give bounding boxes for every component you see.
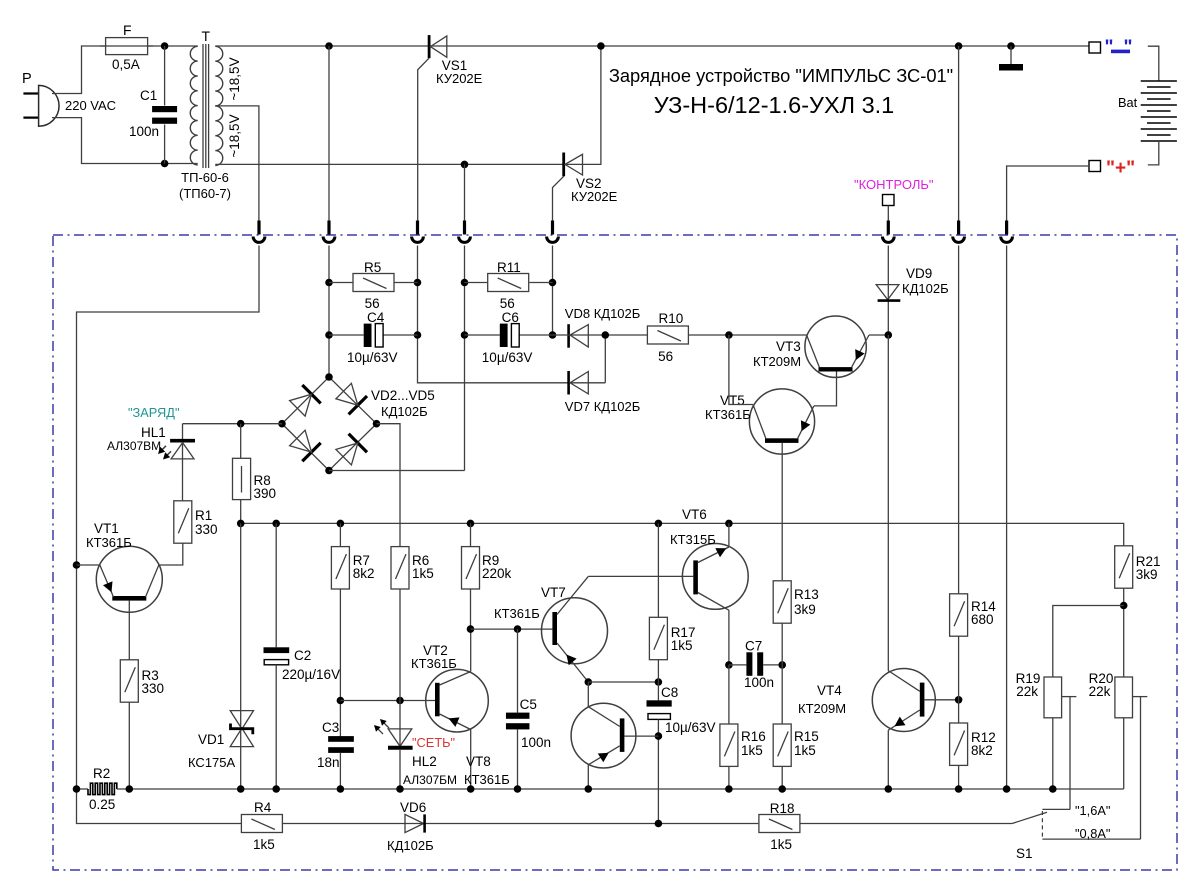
node bottom rail x1052.8 xyxy=(1049,785,1057,793)
wire R19 bottom xyxy=(1052,718,1054,789)
thyristor VS2 KU202E xyxy=(562,153,565,177)
wire VT6 emitter riser xyxy=(728,523,730,547)
capacitor C6 10u/63V xyxy=(500,324,508,347)
wire R20 bottom xyxy=(1123,718,1125,789)
battery Bat xyxy=(1148,46,1159,81)
svg-text:КТ361Б: КТ361Б xyxy=(411,656,457,671)
wire R16 column xyxy=(728,665,730,724)
node C1 bottom xyxy=(161,160,169,168)
wire R13 bottom xyxy=(781,623,783,724)
svg-text:VT6: VT6 xyxy=(682,507,707,522)
node VT2 collector xyxy=(467,625,475,633)
node VD7 riser top xyxy=(602,331,610,339)
node bottom rail x1006.6 xyxy=(1003,785,1011,793)
wire VD8 line xyxy=(553,334,648,336)
capacitor C7 100n xyxy=(746,652,752,676)
wire C2 bottom lead xyxy=(275,665,277,789)
node R5 right xyxy=(414,279,422,287)
svg-text:(ТП60-7): (ТП60-7) xyxy=(179,186,231,201)
node C7 left xyxy=(725,661,733,669)
svg-text:R2: R2 xyxy=(93,766,110,781)
node rail R9 xyxy=(467,520,475,528)
wire node to connector 2 xyxy=(328,46,330,221)
wire R4 to VD6 xyxy=(282,823,758,825)
wire VT5 emitter to VT3 base xyxy=(814,372,837,406)
svg-text:8k2: 8k2 xyxy=(971,743,993,758)
node bridge bottom xyxy=(325,467,333,475)
wire R18 to S1 xyxy=(800,823,1012,825)
connector contact X3 xyxy=(416,221,419,235)
node bottom rail x276.2 xyxy=(272,785,280,793)
bridge diode lower-right xyxy=(349,434,367,452)
svg-text:1k5: 1k5 xyxy=(412,566,434,581)
connector contact X2 xyxy=(327,221,330,235)
node ground xyxy=(1007,42,1015,50)
node bottom rail x888.3 xyxy=(885,785,893,793)
trimmer R20 22k xyxy=(1115,677,1133,718)
svg-text:3k9: 3k9 xyxy=(794,602,816,617)
node C1 top xyxy=(161,42,169,50)
node R11 right xyxy=(549,279,557,287)
wire VT7 collector to VT6 base xyxy=(588,575,693,577)
wire C3 bottom xyxy=(339,752,341,789)
capacitor C3 18n xyxy=(328,736,354,742)
svg-text:330: 330 xyxy=(195,522,218,537)
svg-text:R16: R16 xyxy=(741,729,766,744)
resistor R12 8k2 xyxy=(950,723,968,765)
bridge diode upper-right xyxy=(349,396,367,414)
svg-text:C4: C4 xyxy=(367,310,385,325)
wire R17 bottom xyxy=(657,660,659,682)
svg-text:КТ209М: КТ209М xyxy=(753,354,801,369)
wire VT2 base line xyxy=(340,700,435,702)
wire R8 top lead xyxy=(240,424,242,459)
svg-text:~18,5V: ~18,5V xyxy=(227,57,242,100)
capacitor C1 100n xyxy=(164,46,166,106)
wire R14 column upper xyxy=(958,46,960,221)
device boundary dash-dot border xyxy=(53,235,1177,870)
svg-text:УЗ-Н-6/12-1.6-УХЛ 3.1: УЗ-Н-6/12-1.6-УХЛ 3.1 xyxy=(654,92,895,118)
LED HL1 AL307VM xyxy=(182,424,184,502)
node C6 left xyxy=(461,331,469,339)
wire R7 top xyxy=(339,523,341,546)
node C5 top xyxy=(514,625,522,633)
wire R21 to R19 xyxy=(1053,606,1124,678)
wire R3 to bottom rail xyxy=(128,702,130,789)
wire C4 leads xyxy=(329,334,364,336)
svg-text:Зарядное устройство "ИМПУЛЬС З: Зарядное устройство "ИМПУЛЬС ЗС-01" xyxy=(609,65,953,86)
wire R8 bottom to rail xyxy=(240,500,242,524)
wire R1 to VT1 collector xyxy=(159,543,183,565)
wire VT3 emitter to VD9 column xyxy=(869,334,888,336)
wire base line y629 xyxy=(471,628,553,630)
wire plug top to fuse xyxy=(52,46,106,94)
wire R5 leads xyxy=(329,282,353,284)
node R21 bottom xyxy=(1120,602,1128,610)
wire bottom rail left xyxy=(77,788,89,790)
wire C8 bottom lead xyxy=(657,719,659,823)
wire R9 bottom xyxy=(470,589,472,629)
resistor R9 220k xyxy=(462,547,480,589)
wire C7 left lead xyxy=(729,664,747,666)
terminal KONTROL square xyxy=(883,195,895,206)
wire secondary bottom rail xyxy=(215,163,582,165)
wire C7 right lead xyxy=(763,664,782,666)
diode VD8 KD102B xyxy=(567,324,570,348)
connector contact X5 xyxy=(551,221,554,235)
svg-text:100n: 100n xyxy=(744,675,774,690)
svg-text:C1: C1 xyxy=(140,88,157,103)
wire R12 bottom xyxy=(958,765,960,789)
node VS2 riser xyxy=(597,42,605,50)
resistor R8 390 xyxy=(233,458,251,499)
transistor VT6 KT315B xyxy=(682,544,748,610)
connector contact X8 xyxy=(1005,221,1008,235)
svg-text:100n: 100n xyxy=(521,735,551,750)
node R5 left xyxy=(325,279,333,287)
svg-text:~18,5V: ~18,5V xyxy=(227,114,242,157)
svg-text:56: 56 xyxy=(500,296,515,311)
wire connector4 down to bridge bottom xyxy=(464,246,466,471)
svg-text:56: 56 xyxy=(658,349,673,364)
node bottom rail x340.4 xyxy=(337,785,345,793)
node bridge top xyxy=(325,373,333,381)
svg-text:АЛ307БМ: АЛ307БМ xyxy=(403,773,457,787)
transistor VT5 KT361B xyxy=(749,389,814,454)
wire VD9 column upper xyxy=(887,246,889,336)
svg-text:VT3: VT3 xyxy=(776,339,801,354)
svg-text:R11: R11 xyxy=(497,260,521,275)
transformer T secondary winding I xyxy=(215,46,222,106)
wire R21 bottom xyxy=(1123,588,1125,677)
wire node to connector 4 xyxy=(464,164,466,221)
wire VT6 collector drop xyxy=(728,610,730,665)
wire VT8 base lead xyxy=(624,735,658,737)
svg-text:КТ209М: КТ209М xyxy=(798,701,846,716)
svg-text:Bat: Bat xyxy=(1118,95,1138,110)
node R17 bottom xyxy=(655,678,663,686)
resistor R14 680 xyxy=(950,594,968,636)
transformer core xyxy=(202,44,204,168)
svg-text:"СЕТЬ": "СЕТЬ" xyxy=(412,735,455,750)
node bridge left xyxy=(278,420,286,428)
resistor R15 1k5 xyxy=(773,724,791,766)
svg-text:C8: C8 xyxy=(661,685,678,700)
resistor R16 1k5 xyxy=(720,724,738,766)
svg-text:VT5: VT5 xyxy=(720,393,745,408)
node R4 line C8 xyxy=(655,820,663,828)
wire VS1 gate xyxy=(418,58,429,221)
svg-text:R13: R13 xyxy=(794,587,819,602)
wire R10 right xyxy=(689,334,807,336)
resistor R5 56 xyxy=(353,274,394,292)
resistor R7 8k2 xyxy=(331,547,349,589)
wire HL2 to bottom rail xyxy=(399,750,401,789)
svg-text:1k5: 1k5 xyxy=(794,743,816,758)
svg-text:"1,6A": "1,6A" xyxy=(1075,803,1110,818)
node rail R7 xyxy=(337,520,345,528)
wire bridge right to R6 xyxy=(377,424,401,547)
svg-text:1k5: 1k5 xyxy=(770,837,792,852)
wire R7 to C3 xyxy=(339,589,341,737)
svg-text:R5: R5 xyxy=(364,260,381,275)
transistor VT3 KT209M xyxy=(805,316,866,377)
node rail C2 xyxy=(272,520,280,528)
wire VT5 collector to R10 node xyxy=(729,335,753,405)
transistor VT4 KT209M xyxy=(872,669,935,732)
resistor R13 3k9 xyxy=(773,581,791,623)
svg-text:VT7: VT7 xyxy=(541,585,566,600)
svg-text:КТ361Б: КТ361Б xyxy=(86,535,132,550)
svg-text:220 VAC: 220 VAC xyxy=(65,98,116,113)
node bottom rail x588.3 xyxy=(585,785,593,793)
wire connector3 to VD7 line xyxy=(418,246,606,383)
wire C5 top lead xyxy=(517,629,519,713)
svg-text:10µ/63V: 10µ/63V xyxy=(347,350,398,365)
node C4 right xyxy=(414,331,422,339)
wire HL1 line xyxy=(183,423,283,425)
wire R9 top xyxy=(470,523,472,546)
svg-text:220k: 220k xyxy=(482,566,512,581)
wire C6 leads xyxy=(465,334,500,336)
wire VD7 riser xyxy=(604,335,606,383)
svg-text:R15: R15 xyxy=(794,729,819,744)
svg-text:VD6: VD6 xyxy=(400,800,426,815)
resistor R10 56 xyxy=(647,326,688,344)
node VT8 base junction xyxy=(655,732,663,740)
svg-text:VD7 КД102Б: VD7 КД102Б xyxy=(565,399,641,414)
wire connector5 down xyxy=(552,246,554,336)
svg-text:100n: 100n xyxy=(129,124,159,139)
node R10 right xyxy=(725,331,733,339)
svg-text:КУ202Е: КУ202Е xyxy=(571,189,618,204)
resistor R17 1k5 xyxy=(649,617,667,659)
bridge VD2...VD5 frame xyxy=(282,377,377,471)
resistor R3 330 xyxy=(120,660,138,702)
wire fuse to transformer xyxy=(148,45,198,47)
wire plus column xyxy=(1006,246,1008,790)
svg-text:VD1: VD1 xyxy=(198,732,224,747)
capacitor C4 10u/63V xyxy=(364,324,372,347)
node VT4 base xyxy=(955,696,963,704)
wire bottom rail xyxy=(117,788,1124,790)
svg-text:HL1: HL1 xyxy=(141,425,166,440)
connector contact X7 xyxy=(957,221,960,235)
wire center tap riser to left rail xyxy=(77,246,260,790)
switch S1 link xyxy=(1041,811,1043,838)
switch S1 contact "1,6A" xyxy=(1042,808,1070,810)
node bottom rail x728.9 xyxy=(725,785,733,793)
wire VT2 emitter drop xyxy=(470,730,472,790)
node rail R17 xyxy=(655,520,663,528)
svg-text:КД102Б: КД102Б xyxy=(387,838,434,853)
svg-text:VT4: VT4 xyxy=(817,683,842,698)
svg-text:56: 56 xyxy=(365,296,380,311)
svg-text:S1: S1 xyxy=(1016,846,1033,861)
wiper R19 xyxy=(1062,696,1077,698)
wire plus terminal xyxy=(1007,166,1089,221)
node bridge right xyxy=(373,420,381,428)
svg-text:22k: 22k xyxy=(1016,684,1038,699)
wire VT1 emitter lead xyxy=(77,564,100,566)
svg-text:КУ202Е: КУ202Е xyxy=(436,71,483,86)
svg-text:C3: C3 xyxy=(322,720,339,735)
node R14 column top xyxy=(955,42,963,50)
diode VD6 KD102B xyxy=(405,814,424,832)
svg-text:10µ/63V: 10µ/63V xyxy=(665,720,716,735)
node R7 bottom xyxy=(337,697,345,705)
bridge diode upper-left xyxy=(302,385,320,403)
resistor R4 1k5 xyxy=(241,815,282,833)
svg-text:КТ361Б: КТ361Б xyxy=(705,407,751,422)
svg-text:КТ361Б: КТ361Б xyxy=(464,772,510,787)
wire R8 to VD1 xyxy=(240,523,242,789)
svg-text:P: P xyxy=(22,71,32,87)
zener VD1 KS175A xyxy=(230,711,253,729)
wire VS2 to top rail xyxy=(583,46,601,164)
svg-text:КТ315Б: КТ315Б xyxy=(670,532,716,547)
LED HL2 AL307BM xyxy=(388,729,412,746)
node bottom rail x129.3 xyxy=(126,785,134,793)
terminal plus square xyxy=(1089,161,1101,172)
node bottom rail x517.5 xyxy=(514,785,522,793)
svg-text:22k: 22k xyxy=(1089,684,1111,699)
wire R14 column mid xyxy=(958,246,960,595)
node bottom rail x470.7 xyxy=(467,785,475,793)
svg-text:КД102Б: КД102Б xyxy=(902,281,949,296)
wire KONTROL to connector xyxy=(887,206,889,222)
resistor R11 56 xyxy=(488,274,529,292)
wire VD9 column to VT4 xyxy=(887,335,889,671)
svg-text:F: F xyxy=(123,22,132,38)
node C4 left xyxy=(325,331,333,339)
wire connector2 to bridge top xyxy=(328,246,330,378)
node C7 right xyxy=(778,661,786,669)
wire VT8 collector riser xyxy=(587,682,589,707)
node bottom rail x958.6 xyxy=(955,785,963,793)
svg-text:КТ361Б: КТ361Б xyxy=(494,606,540,621)
svg-text:": " xyxy=(1105,37,1114,58)
svg-text:VD8 КД102Б: VD8 КД102Б xyxy=(565,306,641,321)
resistor R21 3k9 xyxy=(1115,546,1133,588)
bridge diode lower-left xyxy=(302,443,320,461)
transistor VT8 KT361B xyxy=(571,703,636,768)
svg-text:1k5: 1k5 xyxy=(253,837,275,852)
thyristor VS1 KU202E xyxy=(428,35,431,58)
wire VT8 emitter drop xyxy=(587,765,589,789)
wire secondary center tap xyxy=(215,106,259,221)
svg-text:1k5: 1k5 xyxy=(741,743,763,758)
connector contact X6 xyxy=(887,221,890,235)
node rail R8 xyxy=(237,520,245,528)
wire R14 to R12 xyxy=(958,636,960,723)
node R8 top xyxy=(237,420,245,428)
svg-text:VT1: VT1 xyxy=(94,521,119,536)
node rail VT6 xyxy=(725,520,733,528)
wire VT5 base drop xyxy=(781,443,783,580)
svg-text:"+": "+" xyxy=(1106,158,1135,179)
node VT7 emitter junction xyxy=(585,678,593,686)
resistor R18 1k5 xyxy=(759,815,800,833)
svg-text:C5: C5 xyxy=(520,697,537,712)
svg-text:R4: R4 xyxy=(254,800,272,815)
svg-text:КД102Б: КД102Б xyxy=(381,404,428,419)
wire VT4 emitter drop xyxy=(887,730,889,789)
svg-text:C7: C7 xyxy=(745,639,762,654)
svg-text:VD2...VD5: VD2...VD5 xyxy=(371,388,435,403)
wiper R20 xyxy=(1133,696,1148,698)
node top rail x329 xyxy=(325,42,333,50)
switch S1 blade xyxy=(1012,812,1047,823)
svg-text:": " xyxy=(1124,37,1133,58)
wire VS2 gate xyxy=(553,176,564,221)
switch S1 contact "0,8A" xyxy=(1042,838,1140,840)
transistor VT2 KT361B xyxy=(426,669,489,732)
wire top rail xyxy=(215,45,1089,47)
svg-text:КС175А: КС175А xyxy=(188,755,236,770)
svg-text:220µ/16V: 220µ/16V xyxy=(282,667,340,682)
svg-text:18n: 18n xyxy=(317,755,340,770)
transistor VT7 KT361B xyxy=(542,598,608,664)
trimmer R19 22k xyxy=(1044,677,1062,718)
svg-text:ТП-60-6: ТП-60-6 xyxy=(181,170,229,185)
wire VT4 base lead xyxy=(924,699,958,701)
svg-text:"0,8A": "0,8A" xyxy=(1075,826,1110,841)
terminal minus square xyxy=(1089,42,1101,53)
resistor R1 330 xyxy=(174,501,192,543)
diode VD9 KD102B xyxy=(876,285,899,300)
fuse F 0,5A xyxy=(106,38,148,55)
node bottom rail x782.2 xyxy=(778,785,786,793)
svg-text:R1: R1 xyxy=(195,508,212,523)
wire R17 top xyxy=(657,523,659,617)
transistor VT1 KT361B xyxy=(96,546,162,612)
svg-text:"ЗАРЯД": "ЗАРЯД" xyxy=(128,405,180,420)
svg-text:T: T xyxy=(202,28,211,44)
plug P 220 VAC xyxy=(23,92,44,94)
wire C5 bottom lead xyxy=(517,729,519,789)
wire R16 bottom xyxy=(728,766,730,789)
svg-text:VD9: VD9 xyxy=(906,266,932,281)
wire R6 to HL2 xyxy=(399,589,401,746)
ground symbol xyxy=(1010,46,1012,64)
transformer T secondary winding II xyxy=(215,106,222,166)
svg-text:10µ/63V: 10µ/63V xyxy=(482,350,533,365)
connector contact X4 xyxy=(463,221,466,235)
svg-text:8k2: 8k2 xyxy=(353,566,375,581)
connector contact X1 xyxy=(257,221,260,235)
capacitor C2 220u/16V xyxy=(264,647,290,653)
resistor R2 0.25 xyxy=(88,783,117,794)
node R11 left xyxy=(461,279,469,287)
svg-text:АЛ307ВМ: АЛ307ВМ xyxy=(107,439,161,453)
node bottom rail x240.7 xyxy=(237,785,245,793)
capacitor C8 10u/63V xyxy=(647,700,672,706)
node VD9 column junction xyxy=(885,331,893,339)
wire mid rail xyxy=(241,523,1124,545)
capacitor C5 100n xyxy=(506,713,530,719)
svg-text:C6: C6 xyxy=(502,310,519,325)
node C6 right xyxy=(549,331,557,339)
node VT1 emitter xyxy=(73,561,81,569)
svg-text:R10: R10 xyxy=(659,311,684,326)
wire VT2 collector riser xyxy=(470,629,472,671)
diode VD7 KD102B xyxy=(567,371,570,395)
node VT2 base line xyxy=(396,697,404,705)
svg-text:330: 330 xyxy=(142,681,165,696)
svg-text:0,5A: 0,5A xyxy=(112,57,140,72)
resistor R6 1k5 xyxy=(391,547,409,589)
